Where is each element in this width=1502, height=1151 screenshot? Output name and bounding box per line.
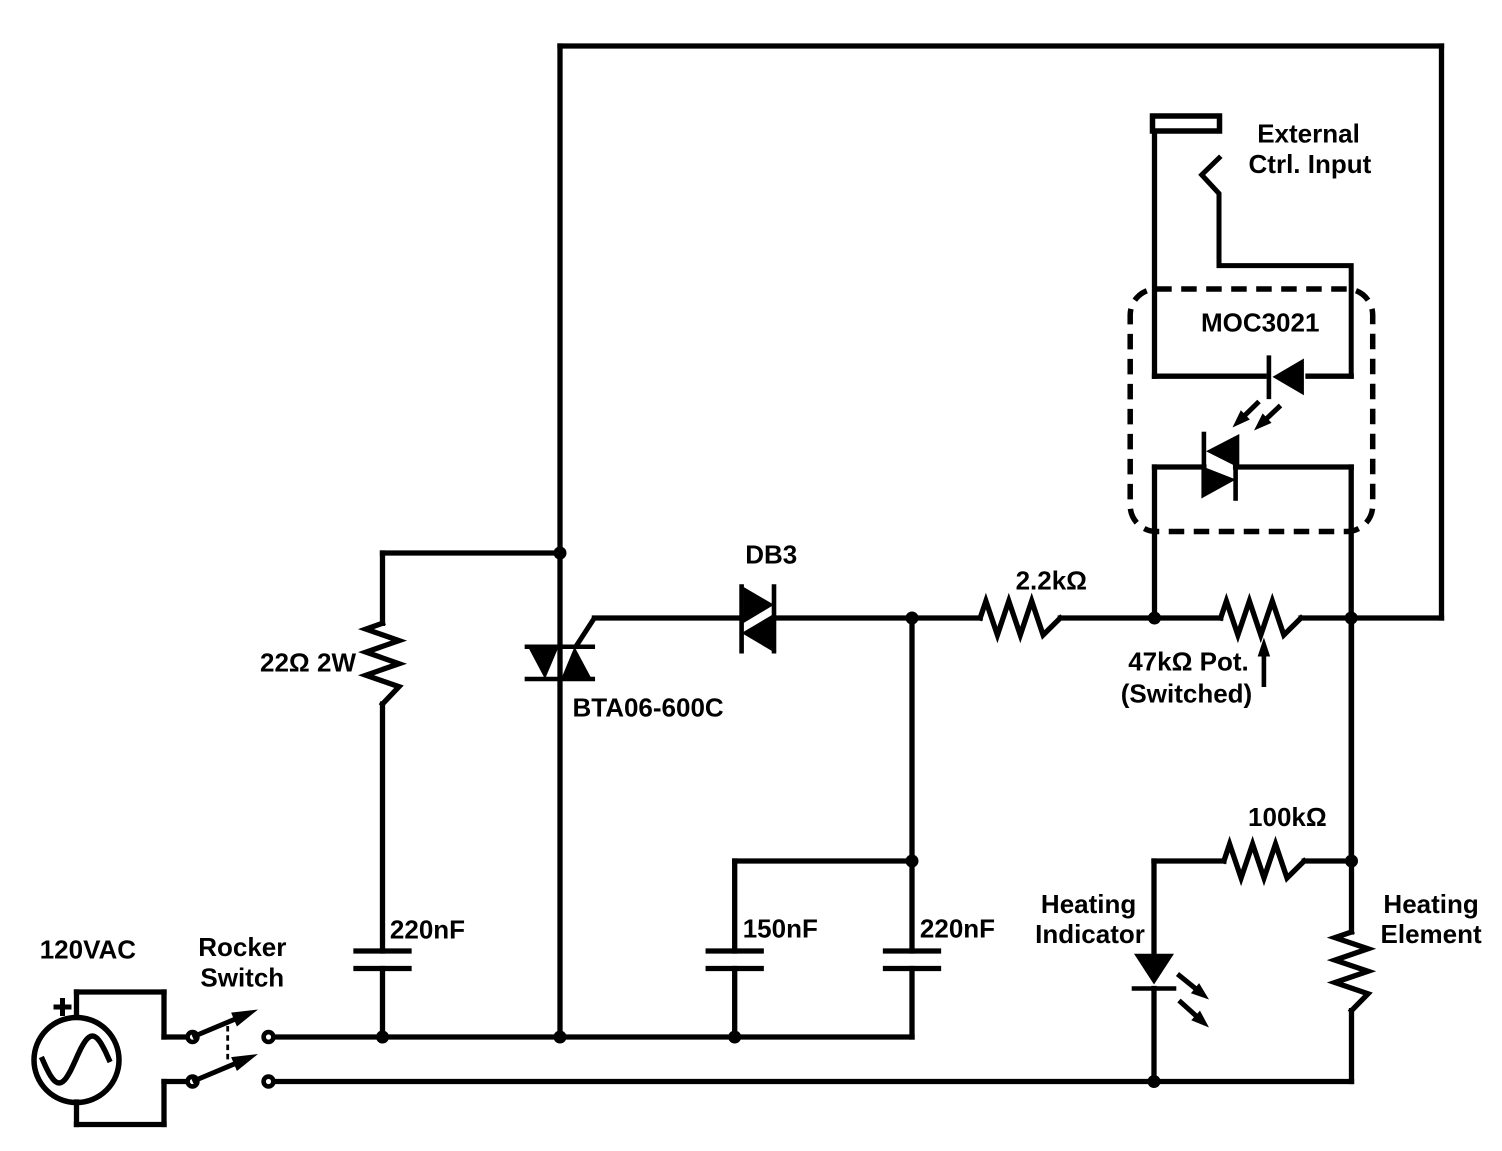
svg-text:22Ω 2W: 22Ω 2W xyxy=(260,648,356,678)
svg-text:(Switched): (Switched) xyxy=(1121,679,1252,709)
svg-text:47kΩ Pot.: 47kΩ Pot. xyxy=(1128,647,1249,677)
svg-text:220nF: 220nF xyxy=(390,915,465,945)
svg-text:Switch: Switch xyxy=(200,962,284,992)
svg-text:150nF: 150nF xyxy=(743,914,818,944)
svg-text:External: External xyxy=(1257,118,1360,148)
svg-text:Ctrl. Input: Ctrl. Input xyxy=(1249,149,1372,179)
svg-text:2.2kΩ: 2.2kΩ xyxy=(1016,565,1087,595)
svg-text:Heating: Heating xyxy=(1041,889,1136,919)
svg-text:MOC3021: MOC3021 xyxy=(1201,307,1320,337)
svg-text:120VAC: 120VAC xyxy=(40,934,137,964)
svg-text:220nF: 220nF xyxy=(920,914,995,944)
svg-text:Indicator: Indicator xyxy=(1035,919,1145,949)
svg-text:Element: Element xyxy=(1381,919,1482,949)
svg-text:100kΩ: 100kΩ xyxy=(1248,802,1327,832)
svg-text:DB3: DB3 xyxy=(745,539,797,569)
svg-text:BTA06-600C: BTA06-600C xyxy=(572,693,723,723)
svg-text:Rocker: Rocker xyxy=(198,932,286,962)
svg-text:Heating: Heating xyxy=(1383,889,1478,919)
